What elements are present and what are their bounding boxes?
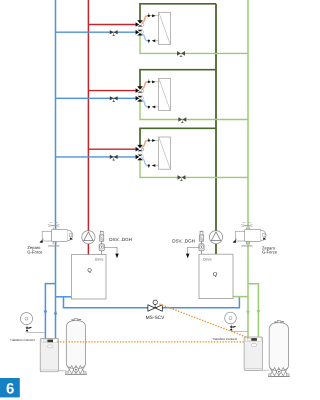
unit 1 junction dot top with test tick <box>148 13 150 17</box>
boiler Q right <box>199 254 233 298</box>
svg-text:DSV...DGH: DSV...DGH <box>109 237 132 242</box>
svg-text:6: 6 <box>6 380 14 397</box>
svg-text:DSVS: DSVS <box>95 257 103 261</box>
unit 3 control valve top (supply) <box>136 145 144 152</box>
boiler connection right (light green) <box>233 296 248 298</box>
unit 2 flow arrow into heat exchanger <box>150 81 159 84</box>
unit 3 flow arrow out of heat exchanger <box>152 164 159 167</box>
unit 3 balancing valve on return branch <box>110 155 118 160</box>
unit 2 blue return branch <box>56 97 137 99</box>
unit 3 heat exchanger box <box>159 137 171 169</box>
unit 1 control valve bottom (return) <box>136 30 144 36</box>
Zeparo G-Force separator left <box>39 223 72 247</box>
unit 3 red supply branch <box>88 148 136 150</box>
unit 2 balancing valve on return branch <box>110 96 118 101</box>
page number plate <box>0 378 20 397</box>
svg-text:Q: Q <box>213 272 218 278</box>
unit 3 shut-off valve on secondary return <box>178 175 186 181</box>
unit 2 heat exchanger box <box>159 78 171 110</box>
unit 2 actuator capillary (dashed circle) <box>138 93 142 97</box>
unit 2 control valve top (supply) <box>136 86 144 93</box>
svg-text:G-Force: G-Force <box>27 249 43 254</box>
pressure gauge right <box>225 312 237 324</box>
safety valve DSV right <box>186 231 204 258</box>
dark green primary riser <box>215 4 217 255</box>
unit 1 primary supply pipe (dark green loop) <box>140 4 216 21</box>
flow arrow down on green riser <box>246 311 250 315</box>
gauge valve right <box>230 325 236 332</box>
unit 3 junction dot top with test tick <box>148 138 150 142</box>
svg-text:Transfero Connect: Transfero Connect <box>212 337 237 341</box>
unit 2 flexible hose supply (salmon) <box>142 82 148 89</box>
flow arrow down on left expansion pipe <box>44 311 48 315</box>
unit 3 blue return branch <box>56 156 137 158</box>
safety valve DSV left <box>99 231 119 258</box>
boiler Q left <box>71 255 106 299</box>
interconnecting main (blue) <box>64 297 240 308</box>
bus line between Transfero units (orange dotted) <box>58 341 244 343</box>
unit 2 primary supply pipe (dark green loop) <box>140 70 216 87</box>
unit 1 balancing valve on return branch <box>110 30 118 35</box>
unit 3 secondary return pipe (light green) <box>140 160 248 178</box>
unit 3 primary supply pipe (dark green loop) <box>140 128 216 145</box>
svg-text:Transfero Connect: Transfero Connect <box>10 338 35 342</box>
unit 2 secondary return pipe (light green) <box>140 101 248 120</box>
expansion branch pipe right <box>248 284 258 337</box>
expansion vessel left <box>65 318 87 374</box>
unit 1 flexible hose supply (salmon) <box>142 16 148 23</box>
unit 2 shut-off valve on secondary return <box>178 117 186 123</box>
svg-text:DSVS: DSVS <box>203 257 211 261</box>
unit 3 flexible hose return (light blue) <box>142 159 148 166</box>
flow arrow down on right expansion pipe <box>257 310 261 314</box>
control line MS-SCV to Transfero (orange dotted) <box>157 303 249 338</box>
pump right <box>209 231 222 244</box>
unit 3 flow arrow into heat exchanger <box>150 139 159 142</box>
unit 1 heat exchanger box <box>159 12 171 44</box>
gauge connection line left <box>27 331 45 333</box>
vessel connection right <box>262 369 269 371</box>
unit 2 red supply branch <box>88 90 136 92</box>
expansion branch pipe left <box>45 284 55 339</box>
unit 1 actuator capillary (dashed circle) <box>138 27 142 31</box>
gauge connection line right <box>231 330 248 332</box>
unit 1 blue return branch <box>56 31 137 33</box>
svg-text:Q: Q <box>87 268 92 274</box>
unit 1 red supply branch <box>88 24 136 26</box>
motorised valve MS-SCV <box>148 300 162 311</box>
vessel connection left <box>59 370 67 372</box>
expansion vessel right <box>268 320 290 376</box>
svg-text:MS-SCV: MS-SCV <box>146 315 165 321</box>
Transfero unit left <box>40 338 58 371</box>
unit 2 control valve bottom (return) <box>136 96 144 102</box>
unit 1 junction dot bottom with test tick <box>148 40 150 44</box>
unit 3 control valve bottom (return) <box>136 155 144 161</box>
blue return riser <box>55 0 57 339</box>
pressure gauge left <box>21 313 33 325</box>
unit 3 actuator capillary (dashed circle) <box>138 151 142 155</box>
unit 1 flow arrow out of heat exchanger <box>152 39 159 42</box>
svg-text:DSV...DGH: DSV...DGH <box>172 238 195 243</box>
unit 3 junction dot bottom with test tick <box>148 164 150 168</box>
pump left <box>82 231 95 244</box>
svg-text:G-Force: G-Force <box>262 250 278 255</box>
label Zeparo G-Force right <box>262 245 278 254</box>
red supply riser <box>87 0 89 255</box>
unit 2 flexible hose return (light blue) <box>142 100 148 107</box>
flow arrow up on blue riser <box>54 310 58 314</box>
Transfero unit right <box>244 337 262 370</box>
unit 3 flexible hose supply (salmon) <box>142 141 148 148</box>
unit 1 secondary return pipe (light green) <box>140 35 248 54</box>
unit 1 flow arrow into heat exchanger <box>150 14 159 17</box>
unit 2 flow arrow out of heat exchanger <box>152 106 159 109</box>
label Zeparo G-Force left <box>27 245 43 255</box>
boiler connection left (blue) <box>56 296 72 298</box>
Zeparo G-Force separator right <box>233 223 266 247</box>
unit 2 junction dot top with test tick <box>148 79 150 83</box>
gauge valve left <box>26 326 32 333</box>
unit 2 junction dot bottom with test tick <box>148 106 150 110</box>
unit 1 shut-off valve on secondary return <box>177 51 185 57</box>
light green secondary riser <box>247 0 249 337</box>
unit 1 control valve top (supply) <box>136 20 144 27</box>
unit 1 flexible hose return (light blue) <box>142 34 148 41</box>
